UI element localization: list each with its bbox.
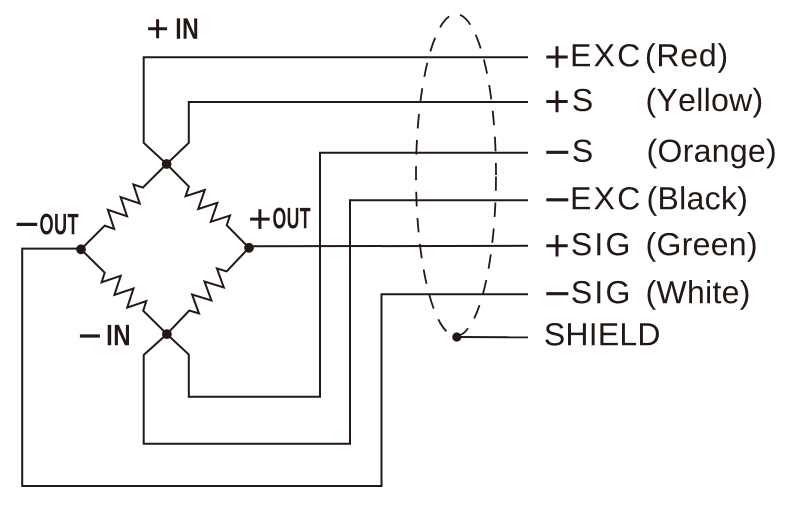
- label (Black): [649, 186, 746, 216]
- label -IN text: [108, 325, 129, 345]
- resistor R3 (bottom-left bridge arm): [81, 249, 167, 334]
- label +OUT text: [273, 208, 310, 229]
- label +EXC plus sign: [546, 46, 567, 67]
- cable bundle dashed ellipse: [416, 14, 496, 336]
- label +S text: [573, 89, 591, 112]
- label +EXC text: [573, 44, 639, 67]
- label -S text: [573, 140, 591, 163]
- label +SIG text: [572, 233, 628, 256]
- wire -S from bottom node to cable: [167, 153, 528, 397]
- label +SIG plus sign: [546, 235, 567, 256]
- node +IN (top junction dot): [162, 159, 172, 169]
- label -OUT minus sign: [17, 223, 38, 226]
- resistor R1 (top-left bridge arm): [81, 164, 167, 249]
- label SHIELD text: [545, 323, 659, 346]
- wire +SIG from +OUT node to cable: [249, 246, 528, 247]
- label (Yellow): [648, 88, 762, 118]
- label +OUT plus sign: [250, 209, 270, 229]
- label -EXC text: [573, 187, 639, 210]
- label +S plus sign: [546, 91, 567, 112]
- label (Orange): [649, 139, 775, 169]
- resistor R4 (bottom-right bridge arm): [167, 248, 249, 334]
- label +IN text: [177, 18, 197, 38]
- label (White): [648, 280, 749, 310]
- label -S minus sign: [546, 151, 568, 154]
- label +IN plus sign: [148, 19, 167, 38]
- label -EXC minus sign: [546, 198, 568, 201]
- label -SIG text: [572, 281, 628, 304]
- label -SIG minus sign: [546, 292, 568, 295]
- node -OUT (left junction dot): [76, 244, 86, 254]
- label (Red): [647, 43, 726, 73]
- resistor R2 (top-right bridge arm): [167, 164, 249, 248]
- wire +S from top node to cable: [167, 102, 528, 164]
- node -IN (bottom junction dot): [162, 329, 172, 339]
- node +OUT (right junction dot): [244, 243, 254, 253]
- label -OUT text: [40, 214, 78, 235]
- wire SHIELD lead: [457, 336, 528, 338]
- wire -SIG from -OUT node around bottom to cable: [22, 249, 528, 486]
- wire -EXC from bottom node to cable: [144, 200, 528, 443]
- wire +EXC from top node to cable: [144, 57, 528, 164]
- label (Green): [648, 232, 756, 262]
- label -IN minus sign: [80, 334, 100, 337]
- node SHIELD (cable shield dot): [452, 332, 461, 341]
